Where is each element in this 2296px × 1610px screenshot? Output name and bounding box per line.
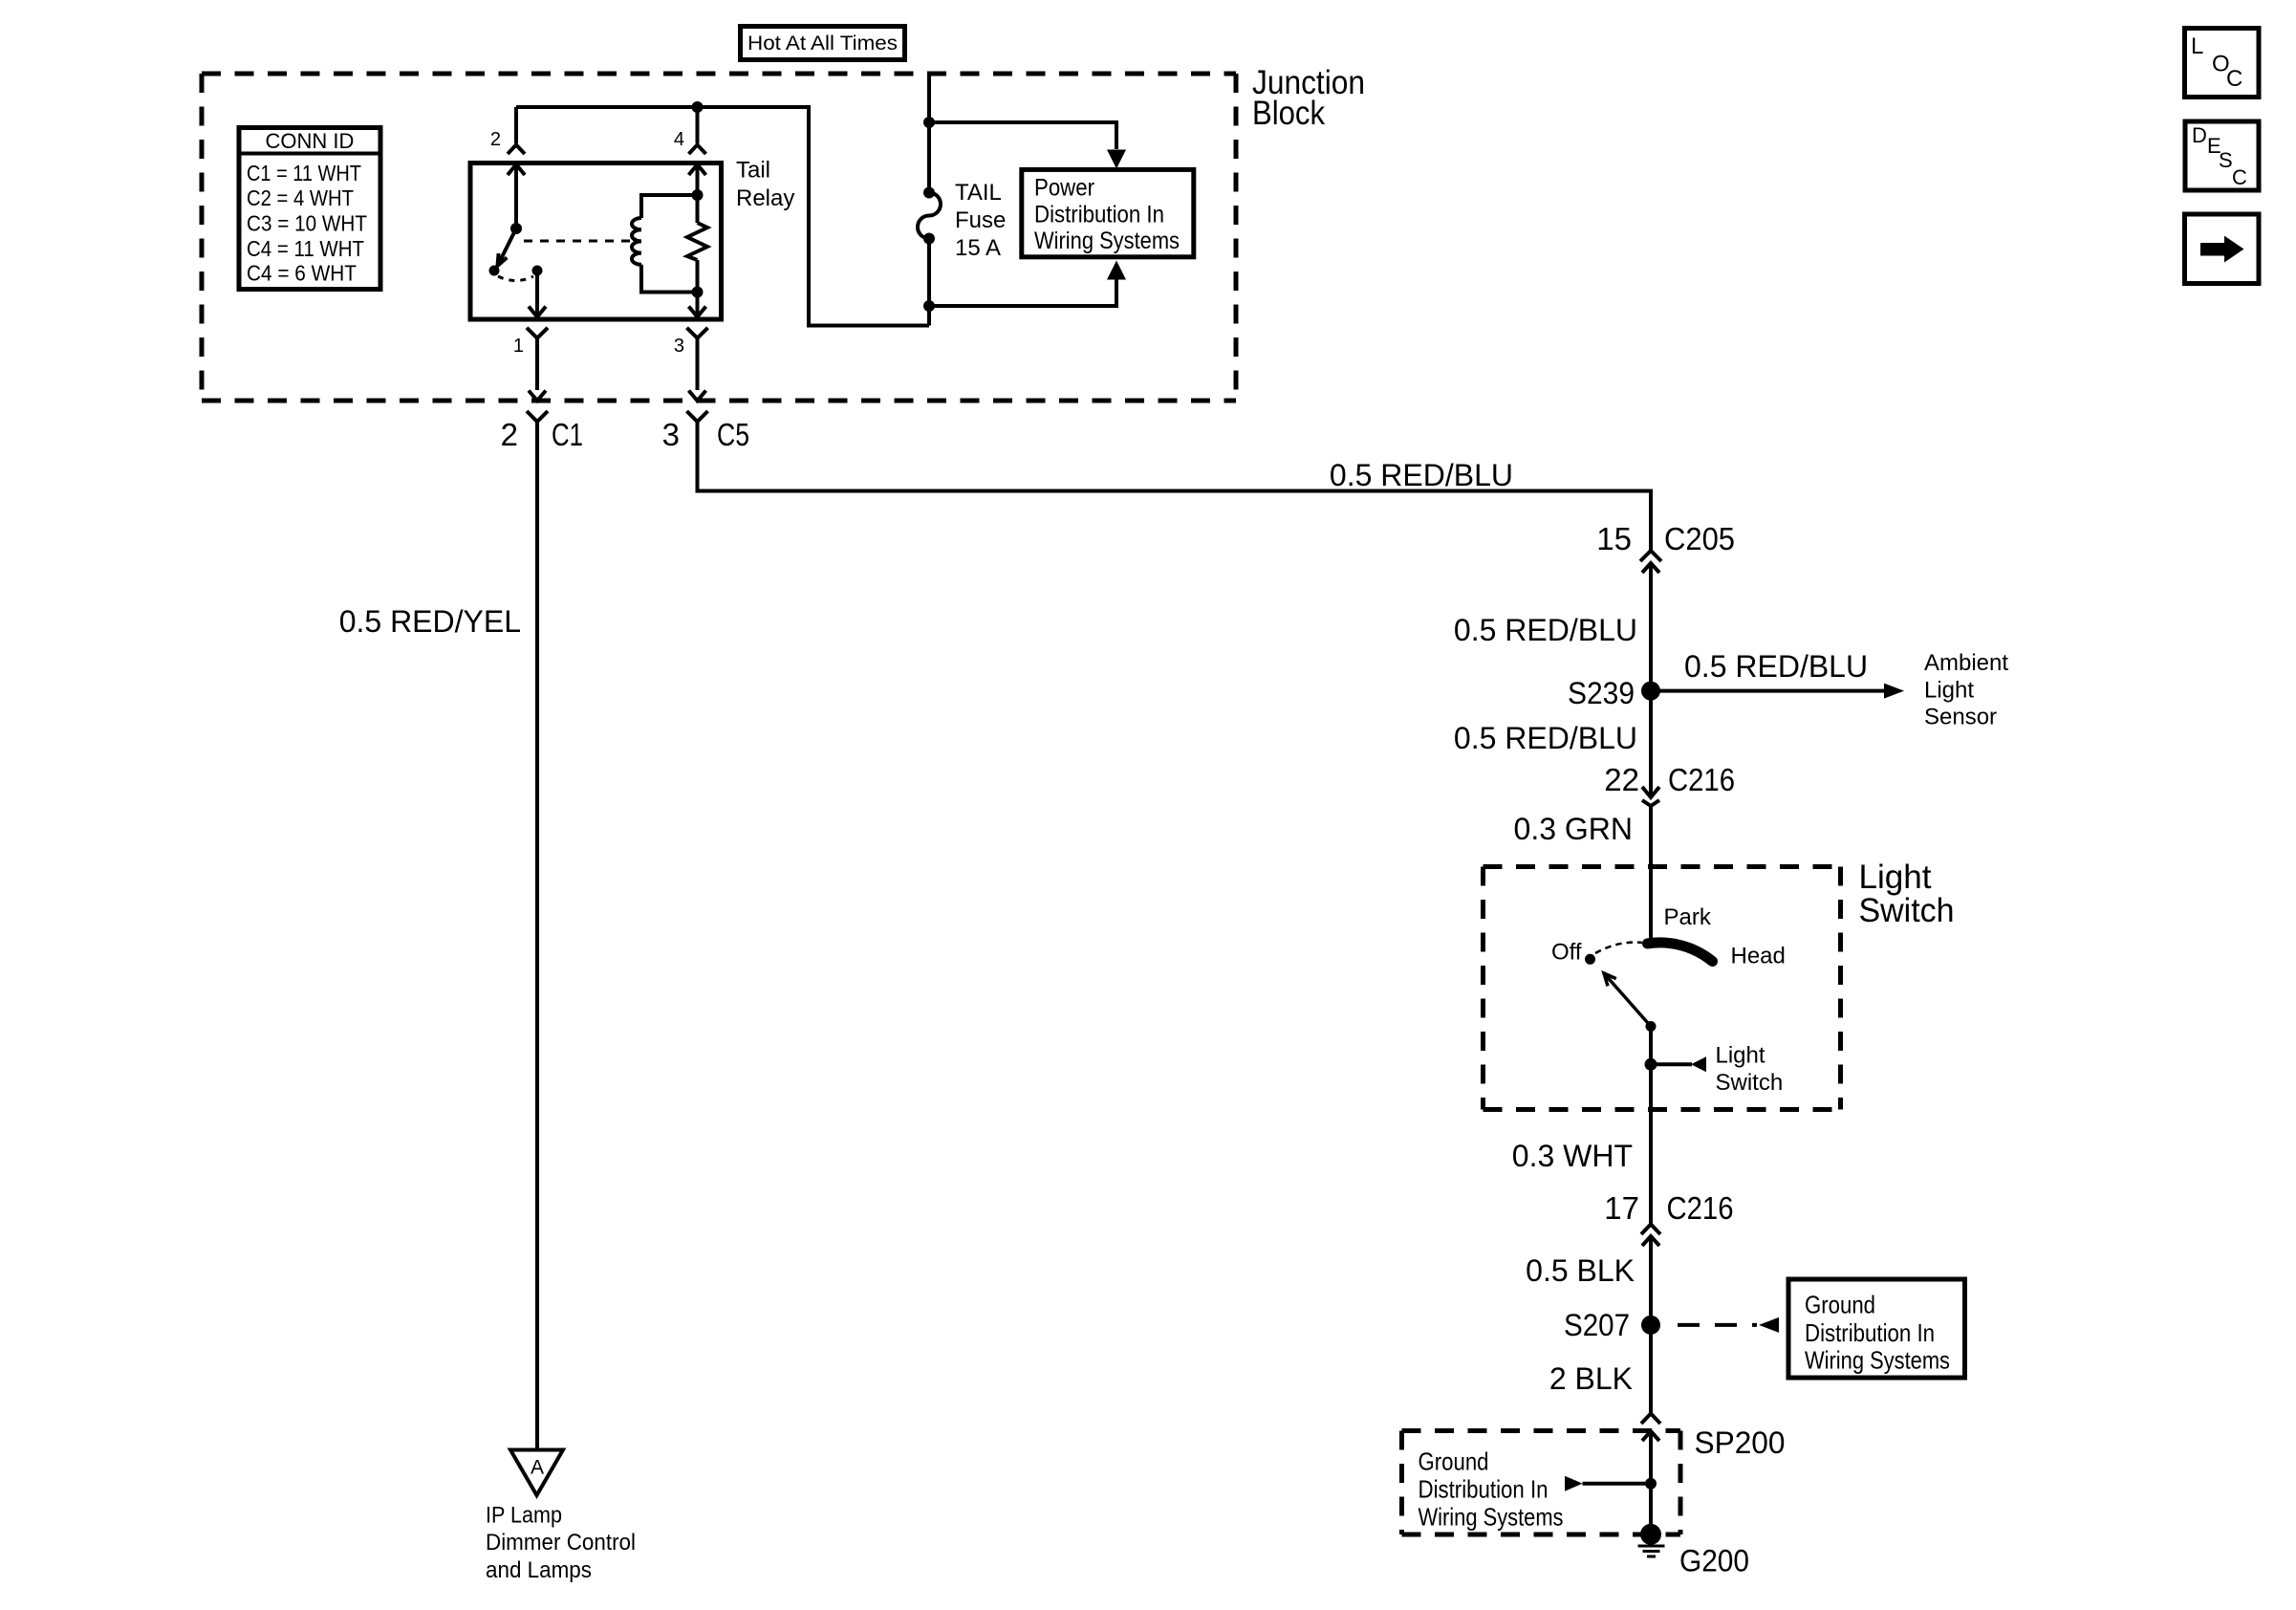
svg-text:0.5 RED/BLU: 0.5 RED/BLU [1330,458,1513,492]
svg-text:0.3 WHT: 0.3 WHT [1512,1139,1633,1173]
svg-text:2 BLK: 2 BLK [1549,1361,1633,1396]
svg-text:A: A [531,1457,544,1479]
svg-text:Light: Light [1924,678,1974,704]
svg-text:17: 17 [1604,1190,1639,1226]
svg-text:15: 15 [1596,521,1632,556]
svg-text:Wiring Systems: Wiring Systems [1034,228,1180,254]
svg-text:Ambient: Ambient [1924,650,2008,676]
svg-text:Park: Park [1664,904,1712,930]
svg-text:22: 22 [1604,762,1639,797]
svg-text:C5: C5 [717,417,749,452]
svg-text:Distribution In: Distribution In [1805,1318,1935,1347]
svg-text:3: 3 [662,417,680,452]
svg-text:CONN ID: CONN ID [266,129,355,153]
svg-text:Distribution In: Distribution In [1034,202,1164,228]
svg-text:Head: Head [1731,944,1786,969]
svg-text:L: L [2191,33,2203,59]
svg-text:C1: C1 [552,417,583,452]
svg-text:C: C [2226,66,2242,92]
svg-text:C216: C216 [1668,762,1735,797]
svg-text:0.5 RED/YEL: 0.5 RED/YEL [339,604,521,639]
svg-text:0.5 RED/BLU: 0.5 RED/BLU [1684,649,1868,684]
svg-text:Light: Light [1716,1043,1765,1069]
svg-text:Wiring Systems: Wiring Systems [1419,1503,1564,1532]
svg-text:Dimmer Control: Dimmer Control [486,1530,636,1556]
svg-text:Tail: Tail [736,158,770,184]
svg-text:Block: Block [1252,95,1325,132]
svg-text:C4 = 11 WHT: C4 = 11 WHT [247,236,364,261]
svg-text:Hot At All Times: Hot At All Times [747,33,898,54]
svg-text:Sensor: Sensor [1924,705,1997,730]
svg-text:Switch: Switch [1859,892,1955,929]
svg-text:S239: S239 [1568,676,1635,710]
svg-text:Relay: Relay [736,185,794,211]
svg-text:S: S [2219,148,2233,172]
svg-text:D: D [2192,123,2207,147]
svg-text:0.5 RED/BLU: 0.5 RED/BLU [1454,613,1637,647]
svg-text:0.5 BLK: 0.5 BLK [1526,1253,1635,1288]
svg-text:C1 = 11 WHT: C1 = 11 WHT [247,161,361,185]
svg-text:S207: S207 [1564,1308,1630,1342]
svg-text:0.3 GRN: 0.3 GRN [1514,812,1633,846]
svg-text:C: C [2232,165,2247,189]
svg-text:1: 1 [513,336,524,357]
svg-text:and Lamps: and Lamps [486,1557,592,1583]
svg-text:Switch: Switch [1716,1070,1784,1096]
svg-text:4: 4 [674,129,684,150]
svg-text:3: 3 [674,336,684,357]
svg-text:Light: Light [1859,859,1932,896]
svg-text:C2 = 4 WHT: C2 = 4 WHT [247,185,354,210]
svg-text:TAIL: TAIL [955,180,1002,206]
svg-text:IP Lamp: IP Lamp [486,1503,562,1529]
svg-text:15 A: 15 A [955,235,1001,261]
svg-text:SP200: SP200 [1695,1425,1786,1460]
svg-text:Distribution In: Distribution In [1419,1475,1549,1504]
svg-text:Power: Power [1034,175,1094,202]
svg-text:C4 = 6 WHT: C4 = 6 WHT [247,261,357,286]
svg-text:C216: C216 [1667,1190,1734,1226]
svg-text:C3 = 10 WHT: C3 = 10 WHT [247,211,367,236]
svg-text:2: 2 [501,417,518,452]
svg-text:G200: G200 [1679,1544,1749,1578]
svg-text:0.5 RED/BLU: 0.5 RED/BLU [1454,721,1637,755]
svg-text:Ground: Ground [1419,1447,1489,1476]
svg-text:Fuse: Fuse [955,207,1006,233]
svg-text:Off: Off [1551,940,1582,966]
svg-text:Wiring Systems: Wiring Systems [1805,1345,1950,1374]
svg-text:Ground: Ground [1805,1290,1875,1318]
svg-text:2: 2 [490,129,501,150]
svg-text:C205: C205 [1664,521,1735,556]
